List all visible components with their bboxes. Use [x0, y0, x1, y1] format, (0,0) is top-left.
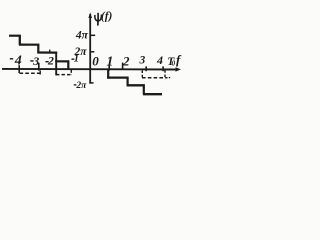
svg-text:4: 4: [14, 54, 22, 69]
dashed box B right edge: [70, 70, 72, 75]
staircase drop at f=-3: [37, 44, 39, 53]
y-axis: [89, 14, 91, 84]
staircase drop at f=-2 continuing below axis: [55, 52, 57, 76]
right staircase step -pi (f 1..2): [107, 76, 128, 78]
dashed box C bottom (f 3..4, level -pi): [142, 77, 168, 79]
minus of -2pi: [74, 84, 77, 86]
right staircase drop after f=2: [126, 77, 128, 87]
small tick at f=-2 on step: [49, 50, 51, 53]
x tick 1: [108, 64, 110, 70]
y-axis arrowhead: [88, 12, 92, 18]
svg-text:3: 3: [32, 54, 39, 68]
svg-text:4: 4: [156, 53, 163, 67]
svg-text:0: 0: [92, 53, 99, 68]
svg-text:4π: 4π: [75, 30, 89, 42]
svg-text:2: 2: [47, 54, 54, 68]
right staircase step -2pi (f 2..3): [127, 84, 145, 86]
staircase drop at f=-4: [19, 35, 21, 45]
svg-text:f: f: [176, 52, 182, 67]
right staircase drop at f=1: [107, 70, 109, 79]
x tick 4: [162, 66, 164, 71]
minus of -3: [30, 60, 33, 62]
right staircase drop at f=3: [143, 84, 145, 94]
staircase step 2pi (f -3..-2): [37, 51, 57, 53]
minus of -1: [72, 58, 75, 60]
x tick -4: [18, 65, 20, 73]
label phi glyph: [97, 13, 99, 26]
x tick 2: [122, 63, 124, 70]
x-axis: [2, 68, 177, 71]
svg-text:3: 3: [139, 55, 146, 67]
x tick -3: [38, 63, 40, 71]
dashed box A bottom (f -4..-3, level -pi/2): [20, 72, 42, 74]
staircase step 3pi (f -4..-3): [19, 43, 39, 45]
y tick 2pi: [90, 51, 94, 53]
y tick 4pi: [90, 34, 95, 36]
staircase step 4pi (f -4.7..-4): [9, 35, 21, 37]
right staircase step -3pi (f 3..4): [143, 93, 162, 95]
y tick -2pi: [89, 82, 93, 84]
stray dash right of box C: [169, 77, 170, 79]
x tick 3: [145, 66, 147, 71]
staircase drop at f=-1: [67, 60, 69, 70]
minus of -4: [10, 58, 13, 60]
svg-text:(f): (f): [101, 10, 113, 22]
dashed box C right edge: [164, 70, 166, 79]
svg-text:0: 0: [172, 59, 176, 67]
svg-text:1: 1: [106, 54, 113, 69]
staircase step pi (f -2..-1): [55, 60, 69, 62]
dashed box C left edge: [141, 70, 143, 77]
svg-text:2: 2: [122, 54, 130, 69]
x-axis arrowhead: [176, 67, 182, 71]
dashed box A right edge: [39, 70, 41, 74]
minus of -2: [45, 61, 48, 63]
svg-text:2π: 2π: [75, 81, 87, 91]
svg-text:1: 1: [74, 54, 79, 65]
dashed box B bottom (f -2..-1): [56, 74, 72, 76]
